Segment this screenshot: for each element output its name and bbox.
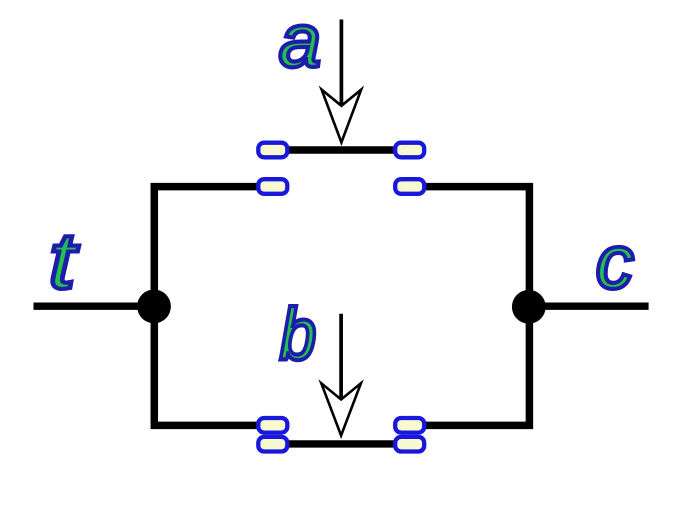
switch b contact pill (bar, left) (258, 437, 287, 452)
switch b contact pill (bar, right) (395, 437, 424, 452)
label a (279, 0, 321, 83)
svg-text:b: b (280, 295, 316, 375)
arrow b head (321, 383, 361, 435)
wire t stub (34, 303, 155, 310)
arrow a head (322, 90, 362, 143)
switch a contact pill (wire, right) (395, 179, 424, 194)
label t (49, 216, 79, 305)
switch b contact pill (wire, right) (395, 418, 424, 433)
switch b movable contact bar (273, 440, 410, 447)
arrow b shaft (339, 314, 343, 400)
switch a contact pill (wire, left) (258, 179, 287, 194)
svg-text:c: c (596, 220, 634, 304)
switch a contact pill (bar, right) (395, 143, 424, 158)
wire right branch (top corner, right vertical, bottom corner) (410, 187, 530, 426)
label b (280, 295, 316, 375)
svg-text:a: a (279, 0, 321, 83)
wire left branch (top corner, left vertical, bottom corner) (154, 187, 272, 426)
label c (596, 220, 634, 304)
arrow a shaft (340, 20, 344, 106)
switch a movable contact bar (273, 146, 410, 153)
node c junction (512, 290, 546, 324)
svg-text:t: t (49, 216, 79, 305)
switch b contact pill (wire, left) (258, 418, 287, 433)
switch a contact pill (bar, left) (258, 143, 287, 158)
wire c stub (529, 303, 648, 310)
node t junction (137, 290, 171, 324)
